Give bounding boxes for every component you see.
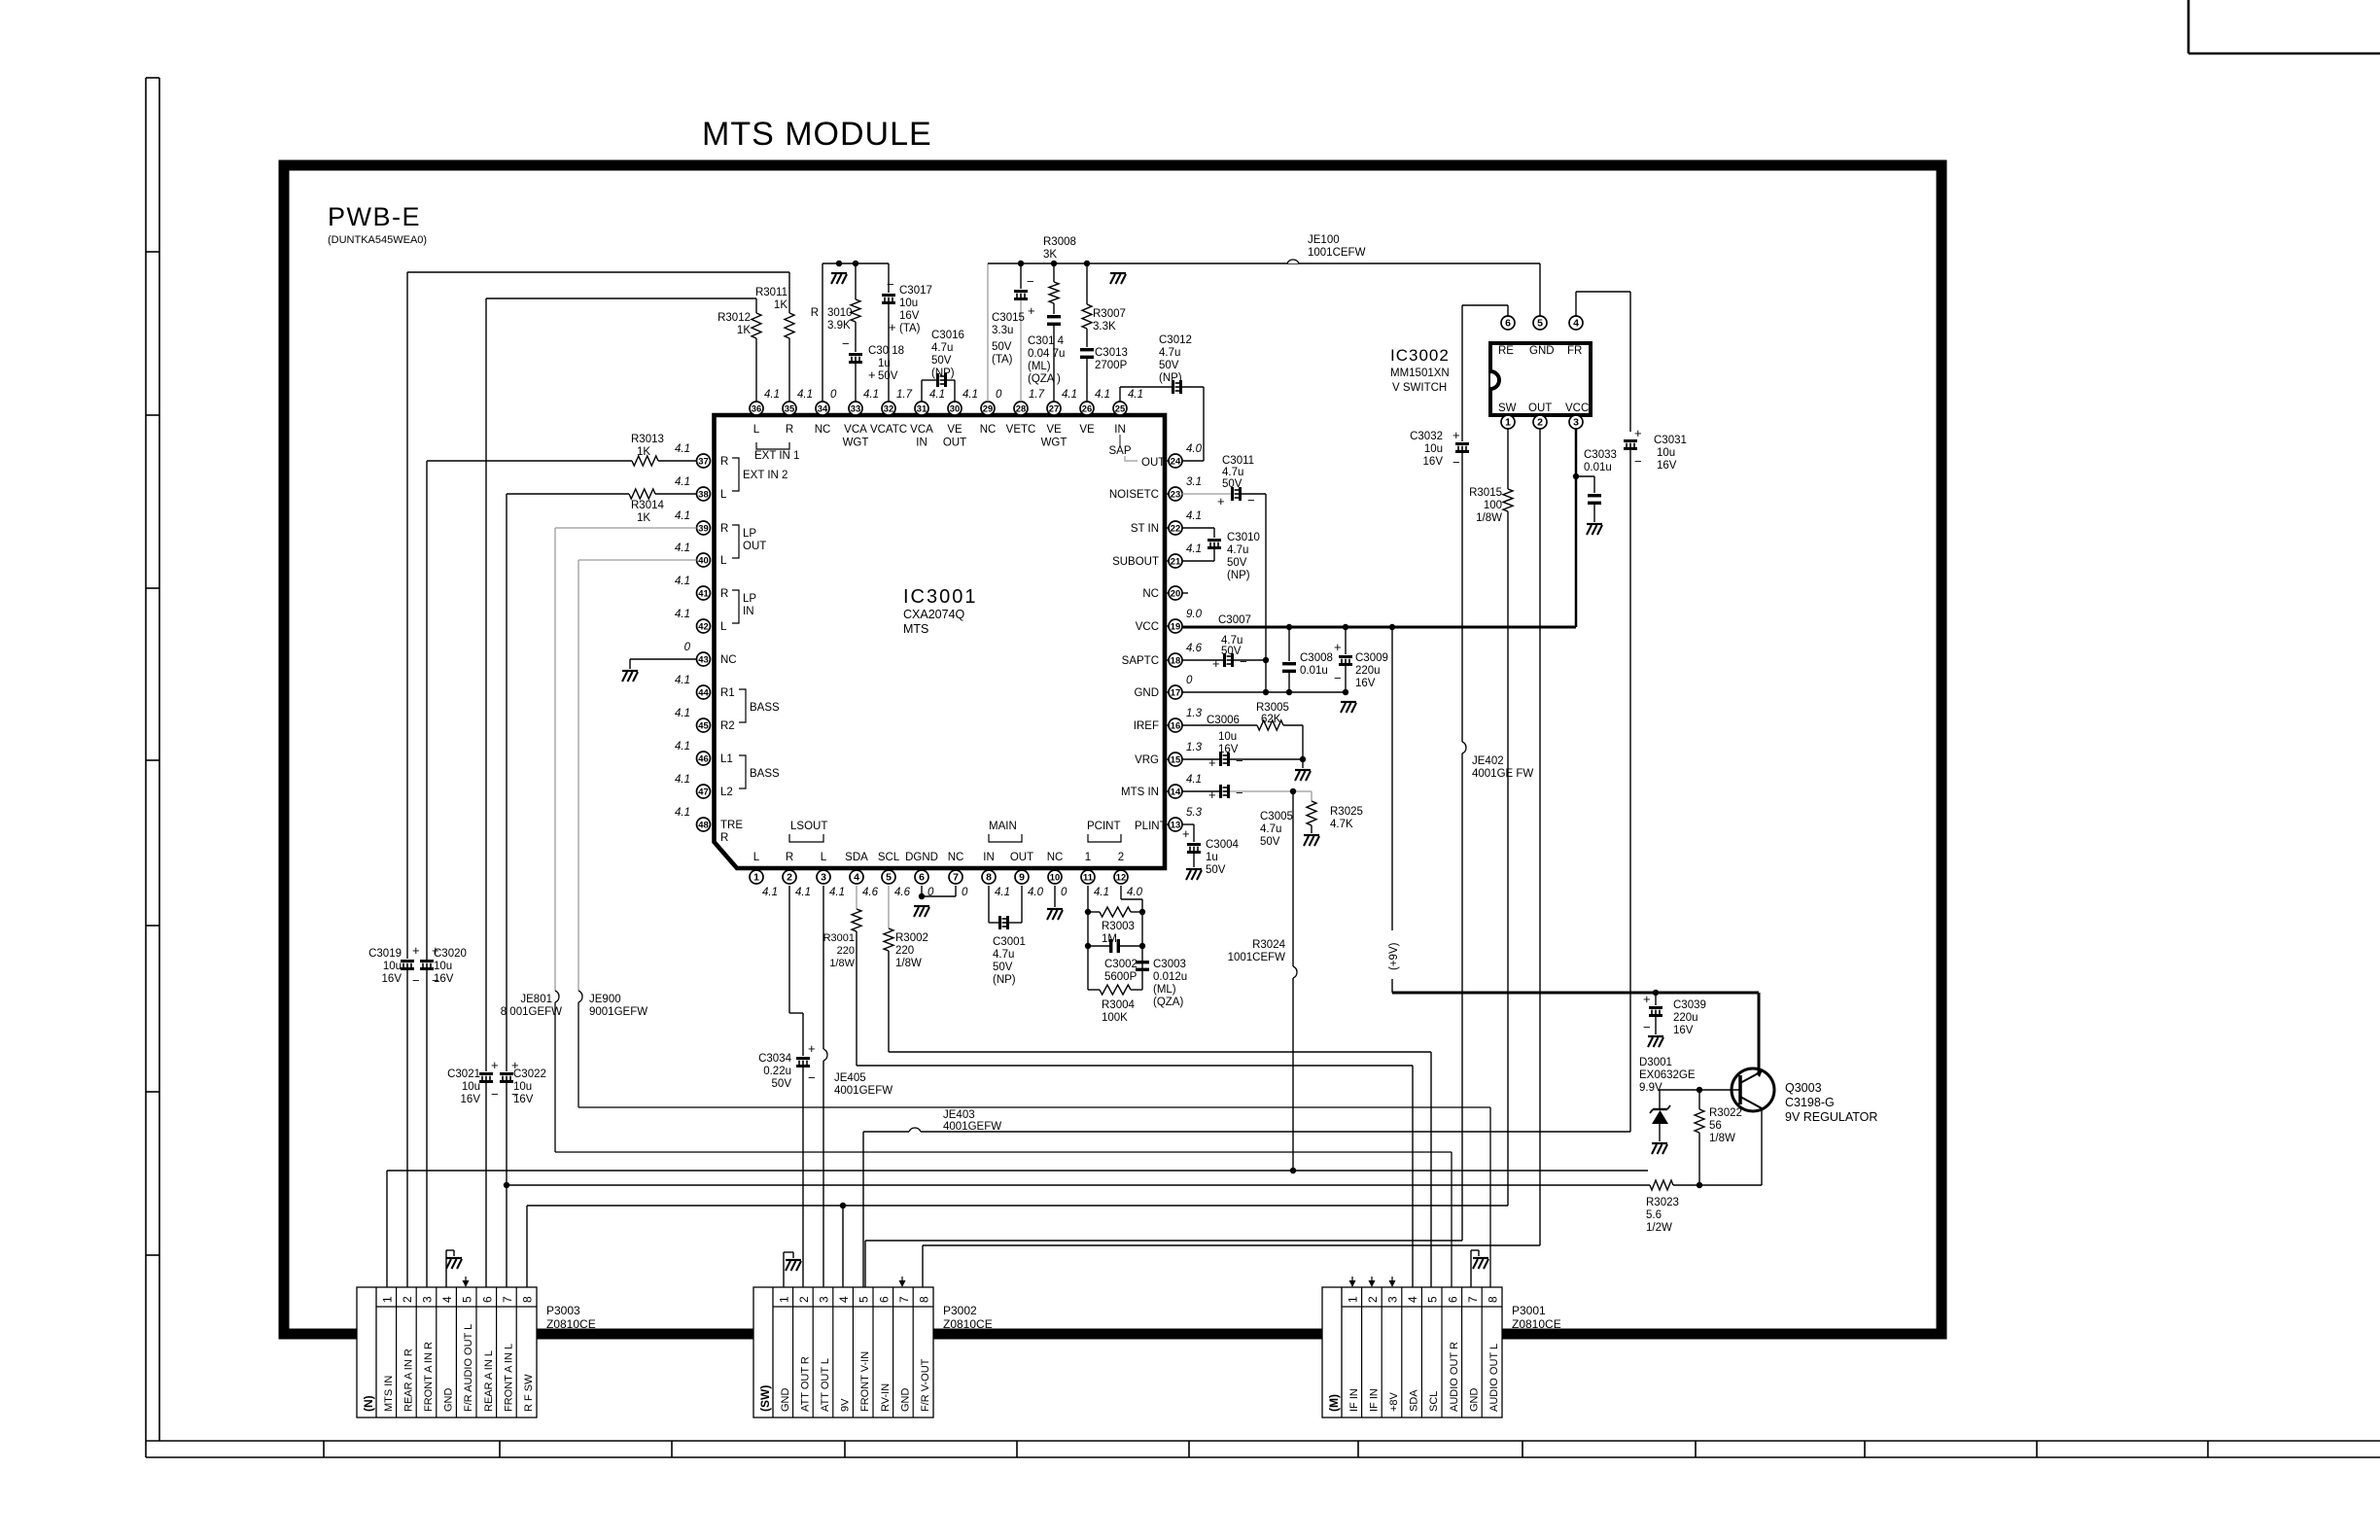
svg-text:GND: GND bbox=[443, 1388, 455, 1413]
svg-text:1/2W: 1/2W bbox=[1646, 1222, 1672, 1234]
svg-text:18: 18 bbox=[1171, 655, 1180, 666]
svg-text:9.9V: 9.9V bbox=[1639, 1082, 1662, 1094]
svg-text:4.1: 4.1 bbox=[675, 741, 690, 752]
svg-text:SCL: SCL bbox=[1428, 1391, 1440, 1412]
svg-text:0.01u: 0.01u bbox=[1300, 665, 1328, 677]
svg-text:41: 41 bbox=[698, 588, 708, 599]
svg-text:4.7u: 4.7u bbox=[993, 949, 1014, 961]
svg-text:IN: IN bbox=[916, 437, 927, 449]
resistor R3012 1K bbox=[717, 312, 761, 338]
svg-text:+: + bbox=[868, 367, 876, 382]
svg-text:46: 46 bbox=[698, 753, 708, 764]
ground under C3033 bbox=[1587, 523, 1602, 525]
svg-text:C3033: C3033 bbox=[1584, 449, 1617, 461]
svg-text:3: 3 bbox=[818, 1296, 831, 1303]
svg-text:SAPTC: SAPTC bbox=[1122, 655, 1159, 667]
ground on pin17 row bbox=[1341, 701, 1356, 703]
capacitor C3017 10u 16V +(TA) bbox=[882, 263, 932, 402]
svg-text:+: + bbox=[511, 1058, 519, 1072]
resistor R3002 220 1/8W bbox=[884, 928, 928, 969]
svg-text:4.1: 4.1 bbox=[1186, 774, 1202, 786]
svg-text:IREF: IREF bbox=[1134, 720, 1159, 732]
svg-text:C3010: C3010 bbox=[1227, 532, 1260, 543]
svg-text:2: 2 bbox=[1366, 1296, 1380, 1303]
jumper JE402 4001GE FW bbox=[1462, 742, 1533, 780]
svg-text:C3006: C3006 bbox=[1207, 715, 1240, 726]
pin 20 bbox=[1142, 586, 1182, 600]
pin 24 OUT elbow bbox=[1125, 456, 1165, 469]
svg-text:L: L bbox=[720, 489, 727, 501]
svg-text:0: 0 bbox=[996, 389, 1002, 401]
wire pin2 via C3034 to P3002 pin2 bbox=[789, 886, 803, 1307]
zener diode D3001 EX0632GE 9.9V bbox=[1650, 1090, 1670, 1141]
svg-text:9V: 9V bbox=[840, 1398, 852, 1412]
svg-text:L1: L1 bbox=[720, 753, 733, 765]
resistor R3013 1K bbox=[631, 434, 664, 466]
capacitor C3022 10u 16V (inline) bbox=[500, 1058, 546, 1105]
capacitor C3005 4.7u 50V on pin14 bbox=[1182, 785, 1312, 848]
svg-text:LP: LP bbox=[743, 593, 756, 605]
svg-text:PLINT: PLINT bbox=[1135, 821, 1167, 832]
svg-text:4.6: 4.6 bbox=[1186, 643, 1203, 654]
svg-text:BASS: BASS bbox=[750, 702, 780, 714]
svg-text:ATT OUT R: ATT OUT R bbox=[799, 1356, 811, 1412]
svg-text:10u: 10u bbox=[899, 297, 918, 309]
svg-text:25: 25 bbox=[1115, 403, 1125, 414]
svg-text:50V: 50V bbox=[1221, 646, 1242, 657]
bracket EXT IN 1 (pins 36-35) bbox=[754, 442, 799, 462]
svg-text:1K: 1K bbox=[637, 446, 650, 458]
svg-text:10u: 10u bbox=[383, 961, 402, 972]
pin 47 bbox=[675, 774, 733, 798]
svg-text:R3015: R3015 bbox=[1469, 487, 1502, 499]
capacitor C3033 0.01u bbox=[1576, 449, 1617, 522]
resistor R3014 1K bbox=[629, 489, 664, 524]
svg-text:4.1: 4.1 bbox=[1186, 543, 1202, 555]
wire pin29 to R3008 net bbox=[988, 261, 1540, 402]
svg-text:33: 33 bbox=[851, 403, 860, 414]
capacitor C3011 4.7u 50V bbox=[1217, 455, 1255, 508]
svg-text:6: 6 bbox=[1446, 1296, 1459, 1303]
capacitor C3013 2700P bbox=[1080, 329, 1128, 402]
svg-text:C3012: C3012 bbox=[1159, 334, 1192, 346]
svg-text:5: 5 bbox=[857, 1296, 871, 1303]
svg-text:17: 17 bbox=[1171, 687, 1180, 698]
pin 44 bbox=[675, 675, 735, 699]
svg-text:L2: L2 bbox=[720, 787, 733, 798]
svg-text:220: 220 bbox=[895, 945, 914, 957]
wire pin37 row with R3013 bbox=[427, 461, 697, 960]
svg-text:9001GEFW: 9001GEFW bbox=[589, 1006, 647, 1018]
svg-text:1/8W: 1/8W bbox=[895, 958, 922, 969]
svg-text:−: − bbox=[1643, 1020, 1651, 1034]
pin 38 bbox=[675, 476, 727, 501]
svg-text:SDA: SDA bbox=[1409, 1389, 1420, 1412]
svg-text:2: 2 bbox=[1537, 417, 1543, 429]
ground under C3039 bbox=[1648, 1035, 1663, 1037]
svg-text:L: L bbox=[720, 621, 727, 633]
svg-text:LSOUT: LSOUT bbox=[790, 821, 827, 832]
svg-text:4.1: 4.1 bbox=[762, 887, 778, 898]
svg-text:4: 4 bbox=[1406, 1296, 1419, 1303]
svg-text:1: 1 bbox=[1085, 852, 1091, 863]
svg-text:R3013: R3013 bbox=[631, 434, 664, 445]
svg-text:−: − bbox=[1240, 654, 1247, 669]
PWB-E module border bbox=[284, 165, 1942, 1334]
bracket BASS (pins 46-47) bbox=[739, 755, 780, 788]
svg-text:27: 27 bbox=[1049, 403, 1059, 414]
ground on R3008 net bbox=[1110, 272, 1126, 274]
svg-text:4.1: 4.1 bbox=[1062, 389, 1077, 401]
svg-text:29: 29 bbox=[983, 403, 993, 414]
ground above P3003 pin4 bbox=[446, 1250, 462, 1287]
svg-text:4001GEFW: 4001GEFW bbox=[943, 1121, 1001, 1133]
svg-text:(SW): (SW) bbox=[758, 1385, 772, 1412]
svg-text:220u: 220u bbox=[1355, 665, 1381, 677]
svg-text:MTS IN: MTS IN bbox=[1121, 787, 1159, 798]
svg-text:EXT IN 2: EXT IN 2 bbox=[743, 470, 787, 481]
svg-text:REAR A IN L: REAR A IN L bbox=[483, 1350, 495, 1412]
svg-text:50V: 50V bbox=[992, 341, 1012, 353]
svg-text:10u: 10u bbox=[1218, 731, 1237, 743]
svg-text:(NP): (NP) bbox=[1227, 570, 1250, 581]
svg-text:−: − bbox=[1452, 455, 1460, 470]
svg-text:1.7: 1.7 bbox=[1029, 389, 1045, 401]
svg-text:WGT: WGT bbox=[843, 437, 869, 449]
svg-text:4001GE FW: 4001GE FW bbox=[1472, 768, 1533, 780]
svg-text:VE: VE bbox=[1046, 424, 1062, 436]
svg-text:Z0810CE: Z0810CE bbox=[546, 1317, 596, 1331]
svg-text:R3001: R3001 bbox=[823, 932, 855, 944]
svg-text:+: + bbox=[808, 1041, 816, 1056]
svg-text:+: + bbox=[1634, 426, 1642, 440]
svg-text:RE: RE bbox=[1498, 345, 1514, 357]
svg-text:5: 5 bbox=[1426, 1296, 1440, 1303]
svg-text:20: 20 bbox=[1171, 588, 1180, 599]
ground under R3025 bbox=[1304, 834, 1319, 836]
pin 11 bbox=[1081, 852, 1109, 898]
svg-text:4.1: 4.1 bbox=[929, 389, 945, 401]
svg-text:−: − bbox=[511, 1087, 519, 1102]
svg-text:F/R V-OUT: F/R V-OUT bbox=[920, 1358, 931, 1412]
wire C3022 to P3003 pin7 and R3023 row bbox=[504, 1083, 509, 1287]
jumper JE100 1001CEFW bbox=[1287, 234, 1366, 263]
svg-text:4.1: 4.1 bbox=[797, 389, 813, 401]
svg-text:50V: 50V bbox=[931, 355, 952, 367]
svg-text:WGT: WGT bbox=[1041, 437, 1067, 449]
svg-text:40: 40 bbox=[698, 555, 708, 566]
svg-text:GND: GND bbox=[780, 1388, 791, 1413]
svg-text:1.3: 1.3 bbox=[1186, 708, 1203, 719]
svg-text:7: 7 bbox=[953, 872, 959, 884]
svg-text:31: 31 bbox=[917, 403, 927, 414]
svg-text:MAIN: MAIN bbox=[989, 821, 1017, 832]
svg-text:R2: R2 bbox=[720, 720, 735, 732]
svg-text:−: − bbox=[432, 973, 439, 988]
svg-text:62K: 62K bbox=[1261, 714, 1281, 725]
svg-text:VETC: VETC bbox=[1006, 424, 1036, 436]
sheet zone ruler (left column) bbox=[146, 78, 159, 1457]
bracket LP IN (pins 41-42) bbox=[732, 590, 756, 623]
svg-text:5: 5 bbox=[886, 872, 892, 884]
svg-text:NOISETC: NOISETC bbox=[1109, 489, 1159, 501]
stub pin20 NC bbox=[1182, 592, 1189, 594]
svg-text:50V: 50V bbox=[772, 1078, 792, 1090]
svg-text:R3005: R3005 bbox=[1256, 702, 1289, 714]
svg-text:5.6: 5.6 bbox=[1646, 1209, 1662, 1221]
svg-text:1.7: 1.7 bbox=[896, 389, 913, 401]
capacitor C3018 1u 50V bbox=[842, 322, 904, 402]
svg-text:1: 1 bbox=[1505, 417, 1511, 429]
svg-text:(TA): (TA) bbox=[899, 323, 921, 334]
label PWB-E bbox=[328, 202, 427, 246]
svg-text:6: 6 bbox=[877, 1296, 891, 1303]
svg-text:4.1: 4.1 bbox=[1095, 389, 1110, 401]
capacitor C3016 4.7u 50V (NP) bracket pins 31-30 bbox=[922, 330, 964, 402]
svg-text:C3001: C3001 bbox=[993, 936, 1026, 948]
svg-text:50V: 50V bbox=[1159, 360, 1179, 371]
svg-text:IF IN: IF IN bbox=[1368, 1388, 1380, 1412]
bracket EXT IN 2 (pins 37-38) bbox=[732, 458, 787, 491]
svg-text:Q3003: Q3003 bbox=[1785, 1081, 1822, 1095]
wire R F SW / 9V net (P3003 pin8, P3002 pin4, R3015) bbox=[527, 1203, 1508, 1307]
svg-text:4.1: 4.1 bbox=[675, 774, 690, 786]
resistor R3023 5.6 1/2W and emitter row bbox=[507, 1108, 1762, 1234]
svg-text:C3039: C3039 bbox=[1673, 999, 1706, 1011]
svg-text:(ML): (ML) bbox=[1153, 984, 1176, 996]
svg-text:3: 3 bbox=[421, 1296, 435, 1303]
svg-text:9V REGULATOR: 9V REGULATOR bbox=[1785, 1110, 1877, 1124]
pin 46 bbox=[675, 741, 733, 765]
svg-text:37: 37 bbox=[698, 456, 708, 467]
svg-text:2700P: 2700P bbox=[1095, 360, 1128, 371]
ground above P3002 pin1 bbox=[784, 1252, 801, 1287]
svg-text:45: 45 bbox=[698, 720, 708, 731]
svg-text:SAP: SAP bbox=[1108, 445, 1131, 457]
svg-text:R3011: R3011 bbox=[755, 287, 787, 298]
svg-text:28: 28 bbox=[1016, 403, 1026, 414]
svg-text:(+9V): (+9V) bbox=[1388, 942, 1400, 970]
ground under R3005/C3006 node bbox=[1295, 759, 1311, 781]
svg-text:VRG: VRG bbox=[1135, 754, 1159, 766]
svg-text:7: 7 bbox=[501, 1296, 514, 1303]
svg-text:50V: 50V bbox=[1227, 557, 1247, 569]
svg-text:100K: 100K bbox=[1102, 1012, 1128, 1024]
capacitor C3010 4.7u 50V (NP) bracket pins 22-21 bbox=[1182, 528, 1260, 581]
svg-text:P3002: P3002 bbox=[943, 1304, 977, 1317]
svg-text:BASS: BASS bbox=[750, 768, 780, 780]
svg-text:Z0810CE: Z0810CE bbox=[1512, 1317, 1561, 1331]
wire IC3002 pin3 to VCC row bbox=[1573, 429, 1579, 627]
svg-text:R3024: R3024 bbox=[1252, 939, 1285, 951]
wire IC3002 pin5 to JE100 bbox=[1539, 263, 1541, 316]
svg-text:OUT: OUT bbox=[943, 437, 966, 449]
svg-text:4.1: 4.1 bbox=[795, 887, 811, 898]
svg-text:C3015: C3015 bbox=[992, 312, 1025, 324]
pin 13 bbox=[1164, 807, 1203, 831]
pin 21 bbox=[1112, 543, 1202, 568]
svg-text:4.1: 4.1 bbox=[829, 887, 845, 898]
svg-text:+: + bbox=[1334, 640, 1342, 654]
capacitor C3020 10u 16V (inline) bbox=[420, 943, 467, 988]
svg-text:FR: FR bbox=[1567, 345, 1582, 357]
label R3003 1M bbox=[1102, 921, 1135, 945]
svg-text:R3022: R3022 bbox=[1709, 1107, 1742, 1119]
svg-text:10u: 10u bbox=[462, 1081, 480, 1093]
svg-text:FRONT A IN R: FRONT A IN R bbox=[423, 1342, 435, 1412]
svg-text:16V: 16V bbox=[1423, 456, 1444, 468]
pin 12 bbox=[1114, 852, 1143, 898]
svg-text:C3005: C3005 bbox=[1260, 811, 1293, 822]
pin 8 bbox=[982, 852, 1010, 898]
svg-text:SW: SW bbox=[1498, 402, 1517, 414]
svg-text:50V: 50V bbox=[993, 962, 1013, 973]
svg-text:4.6: 4.6 bbox=[862, 887, 879, 898]
bracket LSOUT (pins 2-3) bbox=[789, 821, 827, 842]
svg-text:6: 6 bbox=[480, 1296, 494, 1303]
svg-text:4.7u: 4.7u bbox=[1222, 467, 1243, 478]
capacitor C3014 0.047u (ML)(QZA) bbox=[1028, 303, 1065, 402]
svg-text:22: 22 bbox=[1171, 523, 1180, 534]
pin 1 bbox=[750, 852, 778, 898]
svg-text:1M: 1M bbox=[1102, 933, 1117, 945]
svg-text:NC: NC bbox=[815, 424, 831, 436]
svg-text:FRONT A IN L: FRONT A IN L bbox=[503, 1344, 514, 1412]
resistor R3022 56 1/8W bbox=[1695, 1090, 1742, 1185]
resistor R3008 3K bbox=[1043, 236, 1076, 303]
svg-text:D3001: D3001 bbox=[1639, 1057, 1672, 1068]
svg-text:2: 2 bbox=[1118, 852, 1124, 863]
svg-text:1: 1 bbox=[1346, 1296, 1359, 1303]
IC3002 pin 5 bbox=[1533, 316, 1547, 330]
svg-text:C3034: C3034 bbox=[758, 1053, 791, 1065]
svg-text:GND: GND bbox=[1529, 345, 1555, 357]
svg-text:10: 10 bbox=[1050, 872, 1060, 883]
pin 29 bbox=[980, 389, 1002, 436]
svg-text:MTS: MTS bbox=[903, 622, 928, 636]
svg-text:4.1: 4.1 bbox=[764, 389, 780, 401]
svg-text:42: 42 bbox=[698, 621, 708, 632]
svg-text:CXA2074Q: CXA2074Q bbox=[903, 608, 965, 621]
svg-text:R: R bbox=[786, 852, 793, 863]
VCC net pin19 row bbox=[1182, 624, 1577, 630]
capacitor C3012 4.7u 50V (NP) pin25 to pin24 line bbox=[1120, 334, 1204, 461]
svg-text:100: 100 bbox=[1484, 500, 1502, 511]
wire pin43 to ground bbox=[630, 659, 697, 669]
capacitor C3007 4.7u 50V on pin18 bbox=[1182, 614, 1270, 671]
capacitor C3004 1u 50V on pin13 bbox=[1182, 824, 1240, 876]
pin 43 bbox=[684, 642, 737, 666]
wire IC3002 pin1 via R3015 to 9V switch net bbox=[1503, 429, 1513, 1206]
capacitor C3006 10u 16V on pin15 bbox=[1182, 715, 1307, 770]
resistor R3005 62K and pin16 wire bbox=[1182, 702, 1304, 759]
svg-text:OUT: OUT bbox=[1141, 457, 1165, 469]
svg-text:R3004: R3004 bbox=[1102, 999, 1135, 1011]
wire C3031 line down to JE403 row bbox=[1629, 450, 1631, 1132]
svg-text:LP: LP bbox=[743, 528, 756, 540]
svg-text:C3031: C3031 bbox=[1654, 435, 1687, 446]
svg-text:+: + bbox=[889, 320, 896, 334]
svg-text:IC3001: IC3001 bbox=[903, 586, 978, 608]
svg-text:JE100: JE100 bbox=[1308, 234, 1340, 246]
wire pin35 to R3011 to vertical bbox=[407, 272, 789, 959]
svg-text:0.01u: 0.01u bbox=[1584, 462, 1612, 473]
+9V rail from VCC row bbox=[1388, 625, 1759, 1073]
svg-text:48: 48 bbox=[698, 820, 708, 830]
svg-text:4.0: 4.0 bbox=[1127, 887, 1143, 898]
svg-text:3.3K: 3.3K bbox=[1093, 321, 1116, 332]
svg-text:Z0810CE: Z0810CE bbox=[943, 1317, 993, 1331]
connector P3001 Z0810CE (M) bbox=[1322, 1287, 1502, 1417]
ground on DGND net bbox=[914, 905, 929, 907]
svg-text:4.0: 4.0 bbox=[1028, 887, 1044, 898]
svg-text:50V: 50V bbox=[1222, 478, 1242, 490]
wire C3020 to P3003 pin3 bbox=[426, 970, 428, 1287]
resistor R3015 100 1/8W bbox=[1469, 487, 1502, 524]
svg-text:NC: NC bbox=[720, 654, 737, 666]
svg-text:(DUNTKA545WEA0): (DUNTKA545WEA0) bbox=[328, 234, 427, 246]
svg-text:4.1: 4.1 bbox=[675, 510, 690, 522]
svg-text:4.1: 4.1 bbox=[675, 576, 690, 587]
svg-text:1/8W: 1/8W bbox=[829, 958, 855, 969]
resistor R3001 220 1/8W bbox=[823, 909, 861, 969]
svg-text:36: 36 bbox=[752, 403, 761, 414]
pin 5 bbox=[878, 852, 911, 898]
svg-text:SCL: SCL bbox=[878, 852, 900, 863]
capacitor C3039 220u 16V bbox=[1643, 992, 1706, 1036]
arrow stubs P3001 pins 1-3 bbox=[1349, 1277, 1396, 1287]
svg-text:3: 3 bbox=[1573, 417, 1579, 429]
svg-text:L: L bbox=[720, 555, 727, 567]
bracket MAIN (pins 8-9) bbox=[989, 821, 1022, 842]
svg-text:4.1: 4.1 bbox=[675, 807, 690, 819]
pin 36 bbox=[750, 389, 780, 436]
capacitor C3008 0.01u bbox=[1282, 625, 1333, 692]
svg-text:1K: 1K bbox=[737, 325, 751, 336]
svg-text:+: + bbox=[1643, 992, 1651, 1006]
svg-text:0: 0 bbox=[1186, 675, 1193, 686]
pin 39 bbox=[675, 510, 728, 535]
svg-text:4: 4 bbox=[854, 872, 859, 884]
resistor R3011 1K bbox=[755, 287, 794, 338]
IC3001 bottom pins 1-12 bbox=[750, 852, 1143, 898]
svg-text:16V: 16V bbox=[1657, 460, 1677, 472]
svg-text:AUDIO OUT R: AUDIO OUT R bbox=[1449, 1342, 1460, 1412]
svg-text:(ML): (ML) bbox=[1028, 361, 1051, 372]
svg-text:AUDIO OUT L: AUDIO OUT L bbox=[1488, 1344, 1500, 1412]
svg-text:4.1: 4.1 bbox=[995, 887, 1010, 898]
network R3003 C3002 C3003 R3004 (pins 11-12) bbox=[1085, 886, 1145, 995]
svg-text:C3016: C3016 bbox=[931, 330, 964, 341]
svg-text:3K: 3K bbox=[1043, 249, 1057, 261]
wire pin39 via JE801 to P3001 pin6 bbox=[555, 528, 1452, 1287]
wire IC3002 pin2 long vertical to P3002 pin8 bbox=[923, 429, 1540, 1307]
IC3002 pin 2 bbox=[1533, 415, 1547, 429]
svg-text:1001CEFW: 1001CEFW bbox=[1308, 247, 1366, 259]
capacitor C3003 0.012u (ML)(QZA) bbox=[1136, 959, 1187, 1008]
ground on pin34 net bbox=[831, 272, 847, 274]
svg-text:34: 34 bbox=[818, 403, 828, 414]
resistor R3007 3.3K bbox=[1082, 263, 1126, 332]
IC3001 left pins 37-48 bbox=[675, 443, 743, 844]
svg-text:5: 5 bbox=[1537, 318, 1543, 330]
ground at pin10 bbox=[1047, 908, 1063, 910]
svg-text:R: R bbox=[720, 832, 728, 844]
wire pin23 with C3011 bbox=[1182, 487, 1267, 692]
svg-text:C3198-G: C3198-G bbox=[1785, 1096, 1835, 1109]
svg-text:1001CEFW: 1001CEFW bbox=[1228, 952, 1286, 963]
svg-text:1/8W: 1/8W bbox=[1476, 512, 1502, 524]
